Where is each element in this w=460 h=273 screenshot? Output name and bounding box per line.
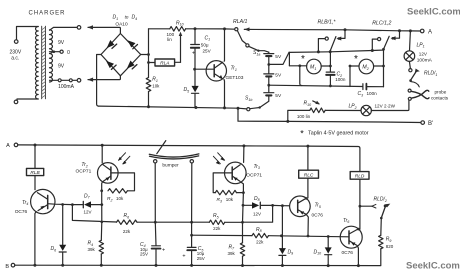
wire: motor supply rail: [289, 50, 384, 52]
bridge rectifier D1-D4 (diamond): [101, 34, 141, 76]
terminal A (top): [420, 29, 424, 33]
junction: RLB coil feed: [34, 144, 37, 147]
wire: bridge positive riser: [141, 29, 149, 78]
svg-text:OA10: OA10: [115, 21, 128, 27]
wire: LP2 to probe contacts: [371, 100, 409, 110]
svg-text:+: +: [182, 254, 185, 260]
junction: Tr1 emitter bus: [223, 106, 226, 109]
svg-text:100n: 100n: [367, 91, 378, 96]
motor M1: [307, 59, 322, 74]
junction: Tr5 emitter: [307, 235, 310, 238]
svg-text:a.c.: a.c.: [11, 56, 19, 62]
wire: M1 left lead: [289, 65, 306, 67]
capacitor C2: [326, 72, 334, 86]
zener D7 12V: [72, 204, 101, 206]
wire: mains input bottom lead: [17, 99, 38, 100]
svg-text:A: A: [428, 30, 432, 36]
svg-text:OC76: OC76: [15, 209, 28, 215]
diode D3 (lower-left arm): [106, 61, 114, 68]
terminal: charger output bottom: [77, 79, 81, 83]
wire: R10 wiper to relay RLA: [180, 34, 182, 63]
resistor R1: [146, 78, 151, 92]
junction: RLB/1 feed: [344, 28, 347, 31]
wire: Tr2 emitter down: [101, 182, 102, 240]
svg-text:10k: 10k: [152, 84, 160, 89]
wire: zener loop down to R6 line: [72, 205, 116, 222]
svg-text:RLC: RLC: [304, 173, 314, 179]
wire: Tr1 collector to rail: [223, 29, 225, 61]
transistor Tr5 OC76: [290, 196, 311, 217]
svg-text:0C76: 0C76: [312, 212, 324, 218]
svg-text:probe: probe: [435, 90, 447, 95]
svg-text:*: *: [301, 54, 305, 65]
svg-text:contacts: contacts: [431, 96, 449, 101]
transformer T1 primary winding: [35, 27, 38, 100]
svg-text:100 lin: 100 lin: [297, 114, 311, 119]
lamp LP1: [409, 31, 412, 51]
wire: R3 to Tr3 emitter line: [237, 192, 244, 194]
wire: R5 to junction: [225, 221, 243, 223]
svg-text:39k: 39k: [88, 247, 96, 252]
wire: mains input top lead: [17, 27, 39, 40]
junction: battery tap 1: [267, 63, 270, 66]
svg-text:RLD/2: RLD/2: [374, 197, 387, 203]
wire: B rail: [15, 249, 381, 266]
junction: RLD/2 branch: [359, 205, 362, 208]
svg-text:9V: 9V: [58, 40, 65, 46]
svg-text:100n: 100n: [335, 77, 346, 82]
wire: R6 to R5: [137, 221, 209, 223]
battery 3 x 5V cells: [264, 52, 274, 101]
svg-text:GET103: GET103: [226, 75, 244, 81]
wire: R10 to LP2: [325, 109, 361, 111]
svg-text:B: B: [5, 264, 9, 270]
resistor R7: [240, 243, 244, 256]
svg-text:OCP71: OCP71: [246, 172, 262, 178]
svg-text:25V: 25V: [140, 252, 148, 257]
wire: Tr3 base loop: [213, 173, 232, 193]
potentiometer R10 (speed, lower): [310, 108, 325, 113]
resistor R6: [117, 220, 138, 224]
relay coil RLB: [34, 145, 36, 168]
terminal: centre tap: [60, 50, 63, 53]
resistor R3: [215, 190, 236, 194]
svg-text:5V: 5V: [275, 93, 282, 99]
svg-text:39k: 39k: [228, 251, 236, 256]
resistor R4: [99, 240, 103, 254]
capacitor C4: [152, 246, 161, 266]
wire: Tr5 emitter down: [307, 215, 309, 236]
wire: Tr2 base loop: [111, 173, 135, 191]
diode D6: [62, 205, 64, 245]
wire: secondary 9V top tap: [50, 27, 78, 30]
resistor R2: [108, 189, 127, 193]
svg-text:5V: 5V: [275, 54, 282, 60]
svg-text:22k: 22k: [213, 226, 221, 231]
wire: RLA to positive riser: [149, 62, 156, 64]
terminal B' (top section): [421, 121, 425, 125]
svg-text:to: to: [125, 15, 129, 20]
wire: M2 left lead: [350, 66, 359, 87]
svg-text:CHARGER: CHARGER: [28, 11, 65, 17]
diode D5: [192, 86, 199, 92]
svg-text:100mA: 100mA: [58, 84, 75, 90]
transformer T1 core: [42, 26, 46, 99]
wire: M1 tap down to motor bottom line: [300, 66, 302, 86]
wire: Tr4 base line: [48, 203, 73, 206]
junction: zener loop branch: [71, 203, 74, 206]
resistor R5: [209, 220, 224, 224]
wire: bumper right contact to C5: [191, 163, 193, 247]
transformer T1 secondary winding: [50, 30, 53, 82]
junction: R10 feed on B rail: [286, 120, 289, 123]
transistor Tr2 OCP71 (photo): [101, 145, 103, 162]
svg-text:10k: 10k: [226, 197, 234, 202]
potentiometer R10 (charge rate): [170, 27, 186, 32]
junction: Tr3 collector feed: [242, 144, 245, 147]
svg-text:820: 820: [386, 244, 394, 249]
junction: D6 branch: [61, 203, 64, 206]
svg-text:+: +: [192, 50, 195, 56]
wire: motor bottom line (battery tap2): [269, 85, 384, 87]
svg-text:SeekIC.com: SeekIC.com: [406, 261, 460, 272]
diode D10: [327, 237, 329, 248]
svg-text:Taplin 4·5V geared motor: Taplin 4·5V geared motor: [308, 131, 369, 137]
relay coil RLA: [155, 59, 175, 66]
junction: battery tap 2: [267, 84, 270, 87]
wire: battery tap1 to motor rail: [269, 52, 289, 64]
junction: D10 / Tr6 base: [327, 235, 330, 238]
junction: D8 out: [271, 204, 274, 207]
capacitor C1: [191, 29, 200, 86]
svg-text:22k: 22k: [123, 229, 131, 234]
wire: Tr4 emitter to B rail: [35, 212, 36, 266]
svg-text:12V: 12V: [253, 211, 261, 216]
bumper: [149, 154, 199, 159]
terminal: mains top: [14, 40, 18, 44]
junction: C1 top: [194, 27, 197, 30]
svg-text:*: *: [354, 54, 358, 65]
wire: A rail (bottom section): [18, 145, 360, 172]
junction: D7 to Tr2 emitter line: [100, 203, 103, 206]
wire: AC lead to bridge (top) with plug arrow: [88, 27, 120, 33]
relay coil RLD: [350, 172, 369, 180]
junction: RLC coil feed: [306, 145, 309, 148]
wire: D8 loop to R5 junction: [243, 205, 273, 222]
svg-text:12V: 12V: [419, 51, 428, 56]
svg-text:0: 0: [67, 50, 70, 56]
svg-text:RLD/1: RLD/1: [424, 71, 437, 77]
svg-text:25V: 25V: [203, 49, 212, 54]
svg-text:lin: lin: [167, 37, 172, 42]
capacitor C3: [362, 84, 364, 90]
fuse 100mA on bottom tap: [50, 79, 78, 81]
wire: R8 line (base bias rail): [192, 235, 349, 237]
wire: Tr1 emitter to bus: [223, 80, 226, 108]
relay coil RLC: [307, 146, 309, 170]
junction: LP1 feed: [409, 29, 412, 32]
resistor R9: [380, 218, 383, 235]
wire: Tr3 emitter down to R7: [241, 182, 244, 243]
transistor Tr4 OC76: [31, 189, 55, 213]
svg-text:RLC/1,2: RLC/1,2: [372, 21, 391, 27]
wire: riser to lower R10: [288, 110, 310, 121]
junction: Tr2 collector feed: [101, 144, 104, 147]
wire: bus jog down to B rail: [238, 108, 421, 122]
diode D4 (lower-right arm): [127, 61, 135, 69]
wire: M1 right lead / C2 riser: [321, 52, 330, 72]
svg-text:+: +: [162, 248, 165, 254]
svg-text:25V: 25V: [197, 256, 205, 261]
junction: R1 bus: [147, 105, 150, 108]
wire: bridge negative to bottom bus: [97, 55, 101, 107]
diode D2 (upper-right arm): [128, 40, 136, 47]
svg-text:0C76: 0C76: [342, 250, 354, 256]
junction: RLC/1,2 feed: [398, 29, 401, 32]
lamp LP2: [361, 105, 371, 115]
svg-text:RLB/1,*: RLB/1,*: [318, 19, 337, 25]
wire: Tr6 emitter to B rail: [357, 246, 358, 266]
diode D9: [281, 206, 283, 248]
svg-text:10k: 10k: [116, 196, 124, 201]
junction: Tr1 collector: [223, 27, 226, 30]
svg-text:A: A: [6, 143, 10, 149]
svg-text:5V: 5V: [275, 72, 282, 78]
svg-text:9V: 9V: [58, 64, 65, 70]
svg-text:bumper: bumper: [162, 163, 179, 169]
transistor Tr3 OCP71 (photo): [243, 146, 245, 163]
wire: AC lead to bridge (bottom) with plug arrow: [88, 76, 120, 80]
wire: D8 to Tr5 base: [273, 204, 298, 207]
wire: bumper left contact to C4: [154, 163, 157, 246]
svg-text:B': B': [428, 121, 433, 127]
svg-text:12V: 12V: [83, 210, 91, 215]
terminal: charger output top: [77, 26, 81, 30]
capacitor C5: [187, 247, 196, 265]
junction: D5 bus: [194, 106, 197, 109]
svg-text:12V 2·2W: 12V 2·2W: [375, 103, 396, 108]
svg-text:OCP71: OCP71: [76, 168, 92, 174]
transistor Tr1 GET103: [206, 61, 226, 81]
terminal: mains bottom: [14, 100, 18, 104]
probe contacts: [408, 89, 411, 92]
diode D1 (upper-left arm): [107, 40, 115, 48]
junction: D9 branch: [280, 234, 283, 237]
svg-text:RLA: RLA: [160, 61, 169, 67]
svg-text:22k: 22k: [256, 239, 264, 244]
svg-text:SeekIC.com: SeekIC.com: [407, 7, 460, 18]
junction: bus to B rail jog: [237, 107, 240, 110]
wire: secondary centre tap 0: [50, 51, 60, 53]
transistor Tr6 OC76: [340, 226, 362, 248]
zener D8 12V: [243, 204, 273, 206]
svg-text:*: *: [300, 129, 304, 139]
svg-text:RLA/1: RLA/1: [233, 19, 248, 25]
motor M2: [359, 59, 374, 74]
switch S1a: [246, 44, 249, 47]
wire: rail drop to M1: [288, 52, 290, 65]
wire: Tr1 base to C1 node: [195, 68, 215, 70]
resistor R8: [252, 233, 269, 237]
wire: M2 right lead riser: [374, 50, 384, 87]
wire: bottom bus of charger section: [99, 106, 247, 109]
svg-text:100mA: 100mA: [417, 57, 433, 63]
wire: main positive rail (top): [149, 29, 421, 31]
svg-text:50μ: 50μ: [201, 42, 209, 47]
